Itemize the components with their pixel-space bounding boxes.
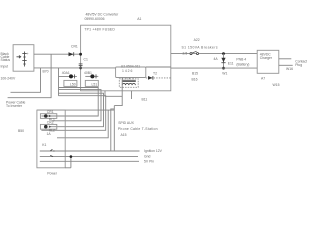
svg-text:CR2: CR2 xyxy=(47,121,54,125)
svg-text:B70: B70 xyxy=(43,69,49,73)
svg-text:Phone Cable T-Station: Phone Cable T-Station xyxy=(118,127,158,131)
relay row2 box xyxy=(40,124,56,129)
connector bottom extension xyxy=(65,167,71,169)
svg-text:TP1 +48V FUSED: TP1 +48V FUSED xyxy=(84,27,115,31)
converter box A1 xyxy=(81,25,171,91)
drop wire ignition xyxy=(111,109,115,151)
connector box top wire xyxy=(37,109,114,111)
svg-text:B11: B11 xyxy=(142,97,148,101)
battery symbol xyxy=(22,52,26,67)
svg-text:Status: Status xyxy=(1,58,11,62)
wire 48V output line1 xyxy=(171,53,257,55)
tick on line2 xyxy=(50,155,53,156)
svg-text:PNB 4: PNB 4 xyxy=(236,57,246,61)
wire gnd line xyxy=(40,156,138,158)
transformer core lines xyxy=(122,79,136,81)
relay row1 box xyxy=(40,114,56,119)
wire dashed output xyxy=(146,77,171,79)
svg-text:Charger: Charger xyxy=(260,56,273,60)
IC pin ticks xyxy=(123,78,134,80)
svg-text:W16: W16 xyxy=(286,67,293,71)
svg-text:K1: K1 xyxy=(42,143,46,147)
svg-text:B50: B50 xyxy=(18,129,24,133)
relay row2 lamp xyxy=(44,125,48,129)
wire inverter stub 2 xyxy=(8,54,52,97)
wire charger out 2 xyxy=(279,64,293,66)
svg-text:5V Pin: 5V Pin xyxy=(144,160,154,164)
wire 48V return line2 xyxy=(171,67,257,69)
wire IC top to box edge xyxy=(146,66,171,68)
svg-text:40B1: 40B1 xyxy=(84,71,92,75)
svg-text:+: + xyxy=(27,52,29,56)
junction node xyxy=(222,52,225,55)
svg-text:S1 150VA Breakers: S1 150VA Breakers xyxy=(182,46,218,50)
stub B drop xyxy=(131,91,133,99)
svg-text:Power: Power xyxy=(47,171,57,175)
diode CR5 xyxy=(148,76,153,80)
svg-text:Gnd: Gnd xyxy=(144,155,151,159)
wire ignition line xyxy=(40,150,140,152)
wire inverter stub 1 xyxy=(11,68,41,92)
wire drop to connector (staircase) xyxy=(114,78,122,106)
transformer T1 dashed box xyxy=(119,79,138,88)
svg-text:4A: 4A xyxy=(214,57,219,61)
svg-text:1 4 2 6: 1 4 2 6 xyxy=(122,69,132,73)
merge node xyxy=(70,155,73,158)
wire converter bottom exit xyxy=(105,91,122,97)
connector box xyxy=(37,110,65,168)
svg-text:A15: A15 xyxy=(121,133,127,137)
node bus junction lower xyxy=(79,67,82,70)
node bus junction top xyxy=(79,53,82,56)
svg-text:40A1: 40A1 xyxy=(62,71,70,75)
svg-text:L50: L50 xyxy=(70,83,76,87)
svg-text:W1: W1 xyxy=(222,71,227,75)
diode CR11 vertical xyxy=(223,54,225,69)
merge stub xyxy=(70,157,72,168)
svg-text:E11: E11 xyxy=(228,62,234,66)
svg-text:CR1: CR1 xyxy=(71,45,78,49)
node on line2 xyxy=(222,67,225,70)
svg-text:A22: A22 xyxy=(194,38,200,42)
charger box A7 xyxy=(257,50,279,73)
fan wire 3 xyxy=(50,93,104,127)
svg-text:T2: T2 xyxy=(153,72,157,76)
fan wire 4 xyxy=(41,96,105,131)
svg-text:1A: 1A xyxy=(47,132,52,136)
svg-text:C1: C1 xyxy=(84,58,88,62)
transformer winding xyxy=(122,83,135,85)
fan wire 5 xyxy=(57,110,108,138)
filter group 1 box L50 xyxy=(64,80,77,86)
svg-text:(Battery): (Battery) xyxy=(236,63,249,67)
capacitor C1 xyxy=(79,64,83,66)
svg-text:To Inverter: To Inverter xyxy=(6,104,23,108)
fan wire 1 xyxy=(41,88,98,117)
svg-text:B15: B15 xyxy=(192,71,198,75)
svg-text:05990-60006: 05990-60006 xyxy=(85,17,105,21)
fan wire 2 xyxy=(52,90,101,121)
svg-text:100-240V: 100-240V xyxy=(1,76,16,80)
svg-text:2.5: 2.5 xyxy=(183,52,188,56)
arrow symbol xyxy=(17,56,21,59)
switch tick on line1 xyxy=(50,149,55,151)
filter group 1 diode xyxy=(59,75,77,77)
diode CR1 xyxy=(69,52,74,56)
wire AC hot (top) xyxy=(34,53,81,55)
drop wire gnd xyxy=(113,106,115,151)
AC input box xyxy=(13,45,34,71)
breaker S1 xyxy=(190,51,199,54)
filter group 1 stub xyxy=(58,68,60,96)
relay row1 lamp xyxy=(44,114,48,118)
svg-text:A7: A7 xyxy=(261,76,265,80)
filter group 2 box L51 xyxy=(85,80,98,86)
svg-text:Ignition 12V: Ignition 12V xyxy=(144,149,163,153)
svg-text:A1: A1 xyxy=(137,17,141,21)
IC box U2 xyxy=(116,67,146,78)
svg-text:Plug: Plug xyxy=(295,63,302,67)
svg-text:L51: L51 xyxy=(92,83,98,87)
wire AC neutral (lower) xyxy=(34,67,116,69)
svg-text:B16: B16 xyxy=(192,77,198,81)
svg-text:U2 0504-011: U2 0504-011 xyxy=(121,65,140,69)
svg-text:48V/5V DC Converter: 48V/5V DC Converter xyxy=(86,13,120,17)
wire charger out 1 xyxy=(279,58,292,60)
svg-text:Input: Input xyxy=(1,64,9,68)
svg-text:W15: W15 xyxy=(273,83,280,87)
wire 5v line xyxy=(40,160,139,162)
svg-text:SPID AUX: SPID AUX xyxy=(118,121,134,125)
filter group 2 diode xyxy=(85,75,98,77)
